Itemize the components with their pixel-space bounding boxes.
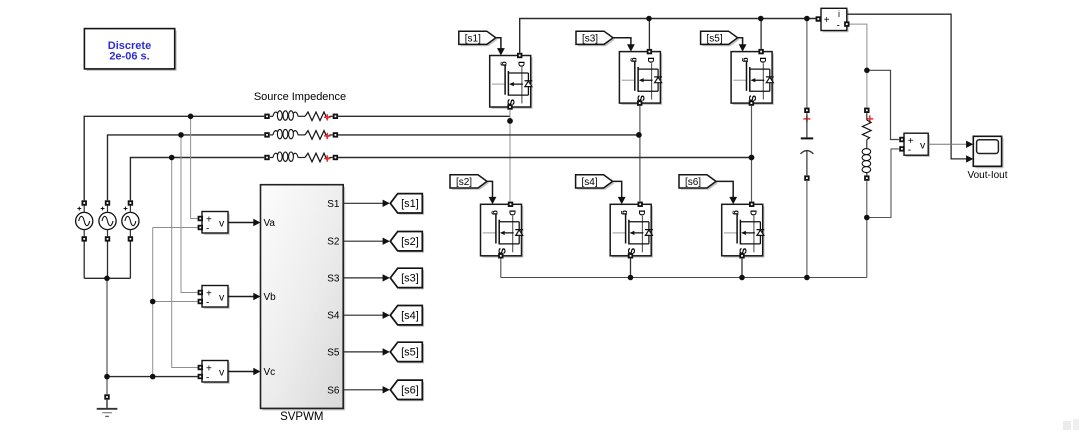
from tag s6 (679, 175, 718, 190)
wire top DC bus (520, 19, 816, 53)
transistor Q4 (610, 202, 653, 259)
svg-text:Vout-Iout: Vout-Iout (967, 170, 1007, 181)
wire capacitor to bottom bus (806, 181, 808, 278)
goto tag s2 (390, 232, 424, 253)
wire from s3 to gate Q3 (613, 38, 631, 45)
goto tag s3 (390, 268, 424, 289)
wire Vc output (228, 371, 254, 373)
wire Q1 source to Q2 drain (509, 110, 512, 202)
wire S3 to goto (343, 277, 383, 279)
wire source 1 bottom (83, 242, 85, 279)
from tag s2 (450, 175, 489, 190)
svg-text:Vb: Vb (264, 292, 277, 303)
wire Q4 source to bottom bus (630, 259, 632, 278)
powergui block Discrete (84, 29, 176, 71)
node bus Q5 (758, 16, 764, 22)
wire sources common (84, 277, 130, 279)
svg-text:2e-06 s.: 2e-06 s. (109, 50, 149, 62)
node rail Vb tap (150, 299, 156, 305)
wire S6 to goto (343, 389, 383, 391)
svg-text:[s6]: [s6] (685, 177, 701, 188)
wire Vb output (228, 296, 254, 298)
transistor Q3 (619, 49, 662, 106)
svg-text:S3: S3 (327, 273, 340, 284)
RL load (862, 108, 873, 181)
svg-text:Source Impedence: Source Impedence (254, 91, 346, 103)
wire Q2 source to bottom bus (500, 259, 502, 278)
wire current i output (847, 14, 967, 159)
wire from s5 to gate Q5 (738, 38, 743, 45)
svg-text:[s1]: [s1] (401, 198, 419, 210)
transistor Q2 (481, 202, 524, 259)
capacitor C (801, 108, 814, 181)
svg-text:S1: S1 (327, 199, 340, 210)
voltage measurement Vb (198, 286, 230, 309)
node DC link junction (864, 68, 870, 74)
wire phase B to bridge (338, 134, 639, 136)
wire source 2 bottom (107, 242, 109, 279)
node bus capacitor (804, 16, 810, 22)
svg-text:S4: S4 (327, 311, 340, 322)
node RL Vout- junction (864, 215, 870, 221)
node phase C junction (749, 155, 755, 161)
wire S4 to goto (343, 314, 383, 316)
voltage measurement Va (198, 212, 230, 235)
wire Q3 source to Q4 drain (639, 106, 641, 202)
svg-text:[s2]: [s2] (456, 177, 472, 188)
svg-text:Vc: Vc (264, 367, 276, 378)
svg-text:-: - (837, 20, 840, 31)
wire bottom bus (501, 277, 867, 279)
svg-text:[s2]: [s2] (401, 236, 419, 248)
AC source 2 (99, 200, 116, 241)
svg-text:-: - (206, 372, 209, 383)
wire phase B riser (108, 135, 265, 200)
from tag s3 (576, 31, 615, 46)
wire tap phase C to Vc+ (172, 158, 198, 368)
wire phase A riser (84, 116, 264, 200)
AC source 1 (76, 200, 93, 241)
svg-text:-: - (908, 145, 911, 156)
wire Va output (228, 222, 254, 224)
goto tag s6 (390, 380, 424, 401)
voltage measurement Vout (899, 133, 930, 157)
svg-text:v: v (219, 367, 225, 379)
RL branch phase B (Source Impedence) (264, 129, 338, 139)
wire Vout output (928, 143, 966, 145)
node phase B junction (636, 132, 642, 138)
wire from s2 to gate Q2 (487, 181, 493, 198)
wire tap phase B to Vb+ (181, 135, 198, 293)
wire Q6 source to bottom bus (741, 259, 743, 278)
wire S2 to goto (343, 240, 383, 242)
from tag s5 (701, 31, 740, 46)
svg-text:S2: S2 (327, 237, 340, 248)
watermark (1063, 419, 1079, 430)
node phase A junction (507, 118, 513, 124)
goto tag s4 (390, 306, 424, 327)
from tag s4 (576, 175, 615, 190)
svg-text:[s6]: [s6] (401, 385, 419, 397)
wire bus to Q3 drain (648, 19, 650, 49)
wire source 3 bottom (129, 242, 131, 279)
wire current minus to load (850, 24, 867, 108)
svg-text:v: v (219, 218, 225, 230)
node bottom bus capacitor (804, 275, 810, 281)
wire phase C to bridge (338, 157, 751, 159)
node rail bottom (150, 374, 156, 380)
node bottom bus Q4 (628, 275, 634, 281)
node phase B tap (178, 132, 184, 138)
svg-text:Va: Va (264, 218, 276, 229)
svg-text:[s1]: [s1] (465, 34, 481, 45)
RL branch phase C (Source Impedence) (264, 152, 338, 162)
wire rail to Vb- (153, 301, 198, 303)
goto tag s1 (390, 194, 424, 215)
svg-text:S6: S6 (327, 385, 340, 396)
wire Q5 source to Q6 drain (751, 106, 753, 202)
svg-text:[s5]: [s5] (401, 347, 419, 359)
wire from s1 to gate Q1 (496, 38, 501, 49)
wire junction to Vout+ (867, 70, 899, 139)
voltage measurement Vc (198, 361, 230, 384)
SVPWM subsystem (261, 185, 346, 411)
wire tap phase A to Va+ (191, 116, 198, 218)
svg-text:-: - (206, 297, 209, 308)
wire from s4 to gate Q4 (613, 181, 622, 198)
AC source 3 (122, 200, 139, 241)
wire rail to Va- (153, 227, 198, 229)
transistor Q5 (731, 49, 774, 106)
transistor Q1 (490, 53, 533, 110)
wire RL load to bottom bus (866, 181, 868, 278)
from tag s1 (459, 31, 498, 46)
node neutral junction (104, 374, 110, 380)
wire from s6 to gate Q6 (716, 181, 733, 198)
wire neutral to ground (106, 278, 108, 394)
transistor Q6 (722, 202, 765, 259)
current measurement block (816, 8, 850, 32)
node bottom bus Q6 (739, 275, 745, 281)
wire neutral to Vc- (107, 376, 198, 378)
svg-text:i: i (838, 9, 840, 19)
node phase A tap (188, 114, 194, 120)
svg-text:+: + (824, 15, 830, 26)
wire Vout- (870, 149, 899, 218)
wire phase C riser (130, 158, 264, 201)
wire phase A to bridge (338, 115, 510, 117)
node bus Q3 (646, 16, 652, 22)
svg-text:[s3]: [s3] (401, 273, 419, 285)
svg-text:v: v (219, 292, 225, 304)
node phase C tap (169, 155, 175, 161)
svg-text:v: v (920, 139, 926, 151)
svg-text:[s5]: [s5] (707, 34, 723, 45)
svg-text:S5: S5 (327, 347, 340, 358)
wire S5 to goto (343, 351, 383, 353)
goto tag s5 (390, 342, 424, 363)
wire bus to Q5 drain (760, 19, 762, 49)
ground (97, 394, 118, 416)
RL branch phase A (Source Impedence) (264, 111, 338, 121)
wire S1 to goto (343, 202, 383, 204)
node sources common (104, 276, 110, 282)
svg-text:[s3]: [s3] (582, 34, 598, 45)
svg-text:-: - (206, 223, 209, 234)
wire neutral rail (152, 228, 154, 377)
svg-text:[s4]: [s4] (582, 177, 598, 188)
svg-text:SVPWM: SVPWM (280, 411, 323, 423)
svg-text:[s4]: [s4] (401, 310, 419, 322)
scope Vout-Iout (973, 136, 1003, 168)
wire bus to capacitor (806, 19, 808, 108)
